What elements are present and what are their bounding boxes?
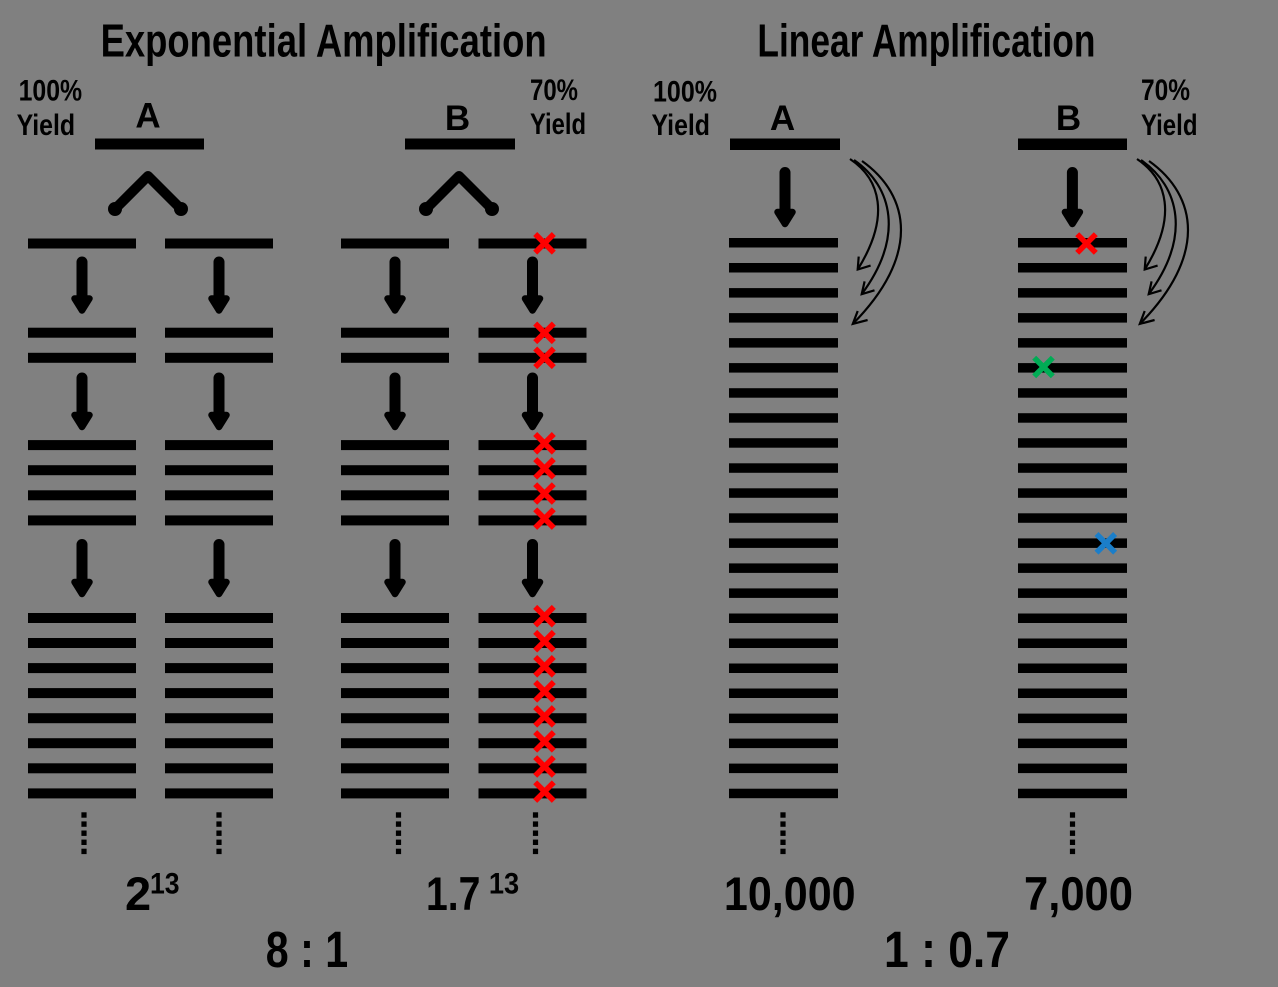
cycle-3 arrow, column 4 (exp) [525,545,540,595]
red X cycle-2 bottom (exp col 4) [535,349,554,368]
red X cycle-3 #3 (exp col 4) [535,484,554,503]
cycle-4 product bars, column 3 (exp) [341,613,449,798]
svg-text:100%: 100% [19,75,83,108]
template strand bar A (lin) [730,139,840,151]
recycling arrows beside stack B (lin) [1137,159,1188,324]
red X cycle-4 #1 (exp col 4) [535,607,554,626]
cycle-2 product bars, column 2 (exp) [165,328,273,363]
svg-text:1.7: 1.7 [426,867,480,920]
ellipsis dots stack B (lin) [1070,812,1075,854]
cycle-3 arrow, column 2 (exp) [212,545,227,595]
cycle-4 product bars, column 2 (exp) [165,613,273,798]
red X cycle-2 top (exp col 4) [535,324,554,343]
cycle-2 arrow, column 1 (exp) [75,378,90,427]
cycle-3 arrow, column 3 (exp) [388,545,403,595]
svg-text:Yield: Yield [652,109,711,142]
svg-text:8 : 1: 8 : 1 [266,921,348,978]
template strand bar A (exp) [95,139,204,150]
svg-text:B: B [1056,99,1081,138]
cycle-3 product bars, column 3 (exp) [341,440,449,525]
cycle-2 product bars, column 3 (exp) [341,328,449,363]
svg-text:Yield: Yield [17,109,76,142]
svg-text:Exponential Amplification: Exponential Amplification [101,15,547,67]
cycle-2 product bars, column 4 (exp) [479,328,587,363]
cycle-2 arrow, column 3 (exp) [388,378,403,427]
red X cycle-4 #7 (exp col 4) [535,757,554,776]
cycle-3 product bars, column 2 (exp) [165,440,273,525]
template strand bar B (lin) [1018,139,1127,151]
red X cycle-1 (exp col 4) [535,234,554,253]
svg-text:70%: 70% [1141,74,1190,107]
cycle-1 product bar, column 1 (exp) [28,239,136,249]
svg-text:Linear Amplification: Linear Amplification [757,15,1095,67]
cycle-2 arrow, column 4 (exp) [525,378,540,427]
cycle-1 product bar, column 4 (exp) [479,239,587,249]
cycle-1 arrow, column 4 (exp) [525,262,540,311]
red X cycle-4 #2 (exp col 4) [535,632,554,651]
red X cycle-4 #8 (exp col 4) [535,782,554,801]
svg-text:7,000: 7,000 [1024,867,1133,920]
cycle-3 product bars, column 1 (exp) [28,440,136,525]
arrow under A (lin) [778,173,793,225]
svg-text:13: 13 [489,868,519,901]
recycling arrows beside stack A (lin) [850,159,901,324]
red X cycle-3 #2 (exp col 4) [535,459,554,478]
ellipsis dots column 2 (exp) [216,812,221,854]
ellipsis dots column 3 (exp) [396,812,401,854]
cycle-2 arrow, column 2 (exp) [212,378,227,427]
ellipsis dots column 1 (exp) [81,812,86,854]
cycle-2 product bars, column 1 (exp) [28,328,136,363]
branch caret under A (exp) [108,176,188,216]
cycle-1 product bar, column 3 (exp) [341,239,449,249]
branch caret under B (exp) [419,176,499,216]
product stack B (lin), 23 bars [1018,238,1127,798]
red X on stack B bar 1 (lin) [1077,234,1096,253]
svg-text:1 : 0.7: 1 : 0.7 [884,921,1010,978]
cycle-1 arrow, column 2 (exp) [212,262,227,311]
ellipsis dots stack A (lin) [780,812,785,854]
svg-text:70%: 70% [530,74,578,107]
svg-text:10,000: 10,000 [724,867,856,920]
svg-text:2: 2 [125,867,151,920]
green X on stack B bar 6 (lin) [1034,358,1053,377]
red X cycle-3 #4 (exp col 4) [535,509,554,528]
cycle-1 arrow, column 1 (exp) [75,262,90,311]
cycle-3 product bars, column 4 (exp) [479,440,587,525]
cycle-4 product bars, column 1 (exp) [28,613,136,798]
svg-text:A: A [770,99,795,138]
template strand bar B (exp) [405,139,515,150]
svg-text:Yield: Yield [1141,109,1198,142]
red X cycle-4 #6 (exp col 4) [535,732,554,751]
svg-text:13: 13 [150,868,180,901]
product stack A (lin), 23 bars [729,238,838,798]
svg-text:B: B [445,99,470,138]
cycle-1 arrow, column 3 (exp) [388,262,403,311]
cycle-4 product bars, column 4 (exp) [479,613,587,798]
svg-text:A: A [135,97,160,136]
cycle-1 product bar, column 2 (exp) [165,239,273,249]
red X cycle-4 #5 (exp col 4) [535,707,554,726]
blue X on stack B bar 13 (lin) [1097,534,1116,553]
red X cycle-4 #3 (exp col 4) [535,657,554,676]
cycle-3 arrow, column 1 (exp) [75,545,90,595]
arrow under B (lin) [1065,173,1080,225]
svg-text:Yield: Yield [530,108,586,141]
red X cycle-4 #4 (exp col 4) [535,682,554,701]
svg-text:100%: 100% [653,76,717,109]
red X cycle-3 #1 (exp col 4) [535,434,554,453]
ellipsis dots column 4 (exp) [533,812,538,854]
